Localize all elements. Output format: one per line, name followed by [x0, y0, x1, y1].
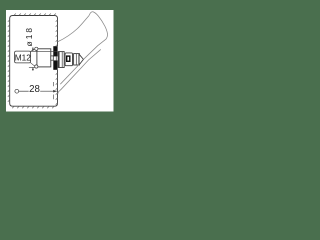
black flange — [53, 46, 57, 56]
cone tip — [80, 55, 84, 65]
28 dim line right segment — [40, 90, 57, 92]
break hook curve top — [89, 12, 108, 39]
collar inner line — [75, 54, 77, 65]
fitting body (threaded) — [37, 49, 51, 67]
white page — [6, 10, 114, 112]
right plate inner hatch ticks — [56, 20, 58, 105]
dia 18 top extension line — [31, 50, 58, 52]
bottom leader circle — [35, 65, 38, 68]
diagonal L3 — [60, 49, 101, 90]
shaft line in flange gap — [55, 56, 57, 60]
collar — [74, 54, 80, 65]
dia 18 bottom extension line — [29, 66, 38, 68]
28 extension line upper — [52, 82, 54, 86]
top edge hatch ticks — [14, 14, 56, 16]
dia 18 dim line top with arrow — [32, 47, 34, 51]
28 dim line left segment — [19, 90, 29, 92]
washer A inner lines — [58, 52, 60, 68]
top leader circle — [35, 47, 38, 50]
diagonal L2 upper — [84, 39, 106, 59]
M12 label box — [15, 51, 31, 63]
break hook bottom — [58, 91, 60, 94]
leader to bottom circle — [31, 63, 35, 66]
washer A — [58, 52, 64, 68]
dia 18 dim line bottom with arrow — [32, 68, 34, 71]
bracket frame outline — [10, 16, 58, 107]
28 dim left circle — [15, 89, 19, 93]
leader to top circle — [31, 49, 35, 51]
diagonal edge E1 — [58, 16, 89, 42]
svg-text:28: 28 — [29, 84, 40, 95]
black flange lower block — [53, 60, 57, 69]
hex nut inner ring — [67, 56, 70, 61]
28 extension line lower — [52, 95, 54, 100]
svg-text:M12: M12 — [15, 53, 32, 63]
green background — [0, 0, 120, 120]
fitting tab — [51, 56, 54, 60]
28 dim arrow — [53, 90, 57, 93]
diagonal L2 lower part — [60, 65, 79, 85]
bottom edge hatch ticks — [12, 106, 54, 108]
hex nut — [65, 53, 72, 66]
svg-text:ø18: ø18 — [24, 26, 34, 46]
left edge hatch ticks — [8, 20, 10, 102]
